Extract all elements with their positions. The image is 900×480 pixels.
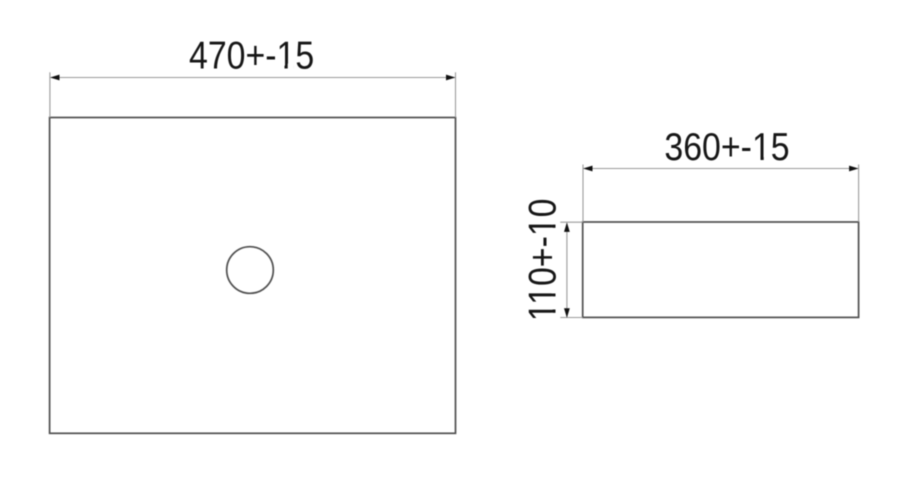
extension line bottom (110 dim)	[560, 317, 582, 319]
basin top-view outline rectangle	[50, 118, 456, 434]
arrowhead top (110 dim)	[564, 222, 570, 232]
dimension line 110	[566, 223, 568, 316]
extension line left (360 dim)	[582, 165, 584, 223]
arrowhead bottom (110 dim)	[564, 308, 570, 318]
extension line left (470 dim)	[49, 72, 51, 117]
arrowhead left (360 dim)	[583, 166, 593, 172]
arrowhead right (360 dim)	[849, 166, 859, 172]
svg-text:110+-10: 110+-10	[521, 198, 565, 321]
dimension line 360	[584, 168, 858, 170]
extension line right (360 dim)	[858, 165, 860, 223]
svg-text:360+-15: 360+-15	[664, 125, 789, 169]
serif masks: digit 1 of 360+-15	[754, 156, 760, 161]
side-view outline rectangle	[583, 222, 859, 317]
serif masks: third digit 1 of 110+-10	[552, 218, 558, 225]
extension line right (470 dim)	[455, 72, 457, 117]
serif masks: first digit 1 of 110+-10	[552, 303, 558, 309]
serif masks: digit 1 of 470+-15	[278, 64, 284, 69]
arrowhead left (470 dim)	[50, 75, 60, 81]
dimension line 470	[51, 77, 455, 79]
arrowhead right (470 dim)	[446, 75, 456, 81]
svg-text:470+-15: 470+-15	[189, 33, 314, 77]
extension line top (110 dim)	[560, 221, 582, 223]
serif masks: second digit 1 of 110+-10	[552, 287, 558, 294]
drain hole circle	[227, 247, 274, 294]
